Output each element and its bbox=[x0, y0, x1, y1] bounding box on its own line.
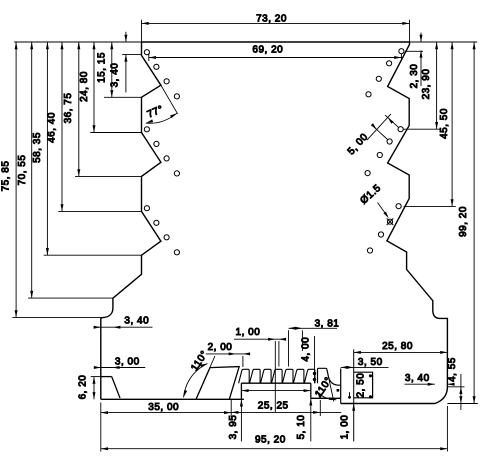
bottom edge middle bbox=[311, 397, 341, 399]
dim 6.20 bbox=[91, 376, 101, 378]
svg-text:3, 50: 3, 50 bbox=[358, 357, 383, 368]
hole left groove1-3 bbox=[164, 79, 169, 84]
dim 5.10 bbox=[310, 398, 312, 441]
svg-text:5, 10: 5, 10 bbox=[296, 415, 307, 440]
right profile edge with V-grooves and steps bbox=[387, 42, 448, 404]
dim 4.00 fin height bbox=[314, 336, 316, 383]
svg-text:46, 40: 46, 40 bbox=[47, 112, 58, 143]
hole left groove2-4 bbox=[174, 171, 179, 176]
slot A left wall bbox=[340, 369, 342, 399]
dim 4.55 bbox=[447, 386, 464, 388]
hole right 7 bbox=[377, 152, 382, 157]
hole left groove3-2 bbox=[154, 220, 159, 225]
svg-text:6, 20: 6, 20 bbox=[78, 375, 89, 400]
svg-text:3, 40: 3, 40 bbox=[110, 63, 121, 88]
svg-text:110°: 110° bbox=[313, 375, 334, 399]
dim 3.00 bbox=[94, 367, 145, 369]
hole right 1 bbox=[399, 49, 404, 54]
svg-text:3, 40: 3, 40 bbox=[405, 373, 430, 384]
svg-text:2, 50: 2, 50 bbox=[355, 373, 366, 398]
svg-text:25, 80: 25, 80 bbox=[382, 341, 413, 352]
top edge bbox=[142, 41, 410, 43]
dim 110 degrees right fin bbox=[329, 377, 334, 402]
dim 25.25 bbox=[319, 400, 321, 416]
svg-text:73, 20: 73, 20 bbox=[256, 13, 287, 24]
step between bottom levels bbox=[340, 398, 342, 403]
dim 25.80 bbox=[354, 351, 448, 353]
dim 35.00 bbox=[100, 403, 102, 452]
svg-text:75, 85: 75, 85 bbox=[1, 161, 12, 192]
fin floor bbox=[241, 382, 310, 384]
svg-text:2, 30: 2, 30 bbox=[409, 64, 420, 89]
svg-text:69, 20: 69, 20 bbox=[252, 45, 283, 56]
svg-text:77°: 77° bbox=[146, 104, 166, 121]
cavity mouth right wall bbox=[310, 383, 312, 398]
small square marker left of slot A bbox=[337, 389, 340, 392]
dim 15, 15 left bbox=[111, 42, 113, 97]
dim 3.40 lower-right bbox=[405, 383, 435, 385]
small fin 1 bbox=[239, 369, 250, 383]
svg-text:3, 81: 3, 81 bbox=[315, 318, 340, 329]
dim 2.00 fin top bbox=[206, 353, 249, 355]
svg-text:4, 55: 4, 55 bbox=[447, 357, 458, 382]
top edge extension left bbox=[14, 41, 141, 43]
dim 77 degrees bbox=[161, 85, 178, 114]
hole left groove2-3 bbox=[164, 156, 169, 161]
center mark X on dimensioned hole bbox=[387, 218, 394, 225]
svg-text:35, 00: 35, 00 bbox=[148, 402, 179, 413]
dim 110 degrees left fin bbox=[196, 356, 215, 399]
svg-text:3, 40: 3, 40 bbox=[124, 315, 149, 326]
dim 99, 20 right bbox=[473, 42, 475, 404]
dim 95.20 bbox=[446, 406, 448, 452]
cavity mouth left wall bbox=[240, 383, 242, 399]
svg-text:45, 50: 45, 50 bbox=[439, 108, 450, 139]
small fin 4 bbox=[272, 369, 283, 383]
large right fin bbox=[318, 368, 341, 385]
tick inside slot A bbox=[349, 392, 351, 398]
dim 1.00 fin gap bbox=[234, 338, 284, 340]
svg-text:15, 15: 15, 15 bbox=[96, 52, 107, 83]
svg-text:36, 75: 36, 75 bbox=[63, 93, 74, 124]
dim 73.20 top bbox=[141, 20, 143, 42]
svg-text:1, 00: 1, 00 bbox=[236, 327, 261, 338]
svg-text:99, 20: 99, 20 bbox=[458, 206, 469, 237]
hole left groove3-1 bbox=[144, 206, 149, 211]
dim 3.81 fin pitch bbox=[289, 327, 338, 329]
top edge extension right bbox=[410, 41, 478, 43]
dim 3.40 upper-left (outside arrows) bbox=[125, 32, 127, 42]
dim 46, 40 left bbox=[61, 42, 63, 211]
dim 3.95 bbox=[240, 399, 242, 441]
hole right 6 bbox=[387, 139, 392, 144]
svg-text:24, 80: 24, 80 bbox=[79, 71, 90, 102]
hole right 4 bbox=[366, 92, 371, 97]
bottom edge left bbox=[101, 398, 244, 400]
slot A right wall / 25.80 + 1.00 extension line bbox=[353, 349, 355, 441]
hole left groove1-4 bbox=[174, 94, 179, 99]
dim 24, 80 left bbox=[93, 42, 95, 133]
svg-text:95, 20: 95, 20 bbox=[255, 435, 286, 446]
dim 23, 90 right bbox=[436, 42, 438, 129]
hole left groove1-2 bbox=[154, 64, 159, 69]
svg-text:23, 90: 23, 90 bbox=[421, 69, 432, 100]
hole left groove3-4 bbox=[174, 250, 179, 255]
hole left groove2-1 bbox=[144, 127, 149, 132]
hole left groove3-3 bbox=[164, 235, 169, 240]
svg-text:3, 95: 3, 95 bbox=[228, 415, 239, 440]
hole right 11 bbox=[378, 232, 383, 237]
slot B rectangle bbox=[354, 372, 373, 398]
dim 58, 35 left bbox=[46, 42, 48, 255]
dim 75, 85 left bbox=[15, 42, 17, 317]
small fin 3 bbox=[261, 369, 272, 383]
svg-text:2, 00: 2, 00 bbox=[208, 342, 233, 353]
svg-text:58, 35: 58, 35 bbox=[32, 132, 43, 163]
dim 3.40 lower-left bbox=[95, 326, 153, 328]
dim 70, 55 left bbox=[31, 42, 33, 298]
hole left groove1-1 bbox=[144, 50, 149, 55]
svg-text:Ø1.5: Ø1.5 bbox=[358, 183, 383, 207]
inner mouth dim line bbox=[241, 390, 310, 392]
svg-text:1, 00: 1, 00 bbox=[340, 415, 351, 440]
hole right 2 bbox=[387, 61, 392, 66]
svg-text:3, 00: 3, 00 bbox=[115, 356, 140, 367]
dim 69.20 (between corner holes) bbox=[148, 54, 150, 61]
small fin 2 bbox=[250, 369, 261, 383]
left wing top + 3.00 slant bbox=[101, 376, 112, 378]
dim 3.50 slot A bbox=[341, 366, 389, 368]
svg-text:70, 55: 70, 55 bbox=[17, 155, 28, 186]
hole left groove2-2 bbox=[154, 141, 159, 146]
small fin 6 bbox=[293, 369, 304, 383]
dim 45, 50 right bbox=[451, 42, 453, 206]
dim 2.30 right (outside arrows) bbox=[420, 33, 422, 42]
svg-text:4, 00: 4, 00 bbox=[300, 337, 311, 362]
hole right 8 bbox=[365, 171, 370, 176]
dim 36, 75 left bbox=[78, 42, 80, 176]
small fin 5 bbox=[282, 369, 293, 383]
svg-text:25, 25: 25, 25 bbox=[258, 401, 289, 412]
dim 5.00 slanted bbox=[385, 115, 399, 128]
hole right 9 bbox=[396, 204, 401, 209]
dim 1.00 slot web bbox=[352, 404, 355, 411]
hole right 10 bbox=[387, 219, 392, 224]
large left fin (110 deg) bbox=[196, 367, 239, 400]
hole right 3 bbox=[376, 76, 381, 81]
small fin 7 bbox=[304, 369, 315, 383]
hole right 5 bbox=[398, 127, 403, 132]
hole right 12 bbox=[367, 248, 372, 253]
left profile edge with V-grooves bbox=[101, 42, 161, 399]
svg-text:5, 00: 5, 00 bbox=[346, 131, 371, 157]
bottom edge right bbox=[341, 403, 435, 405]
